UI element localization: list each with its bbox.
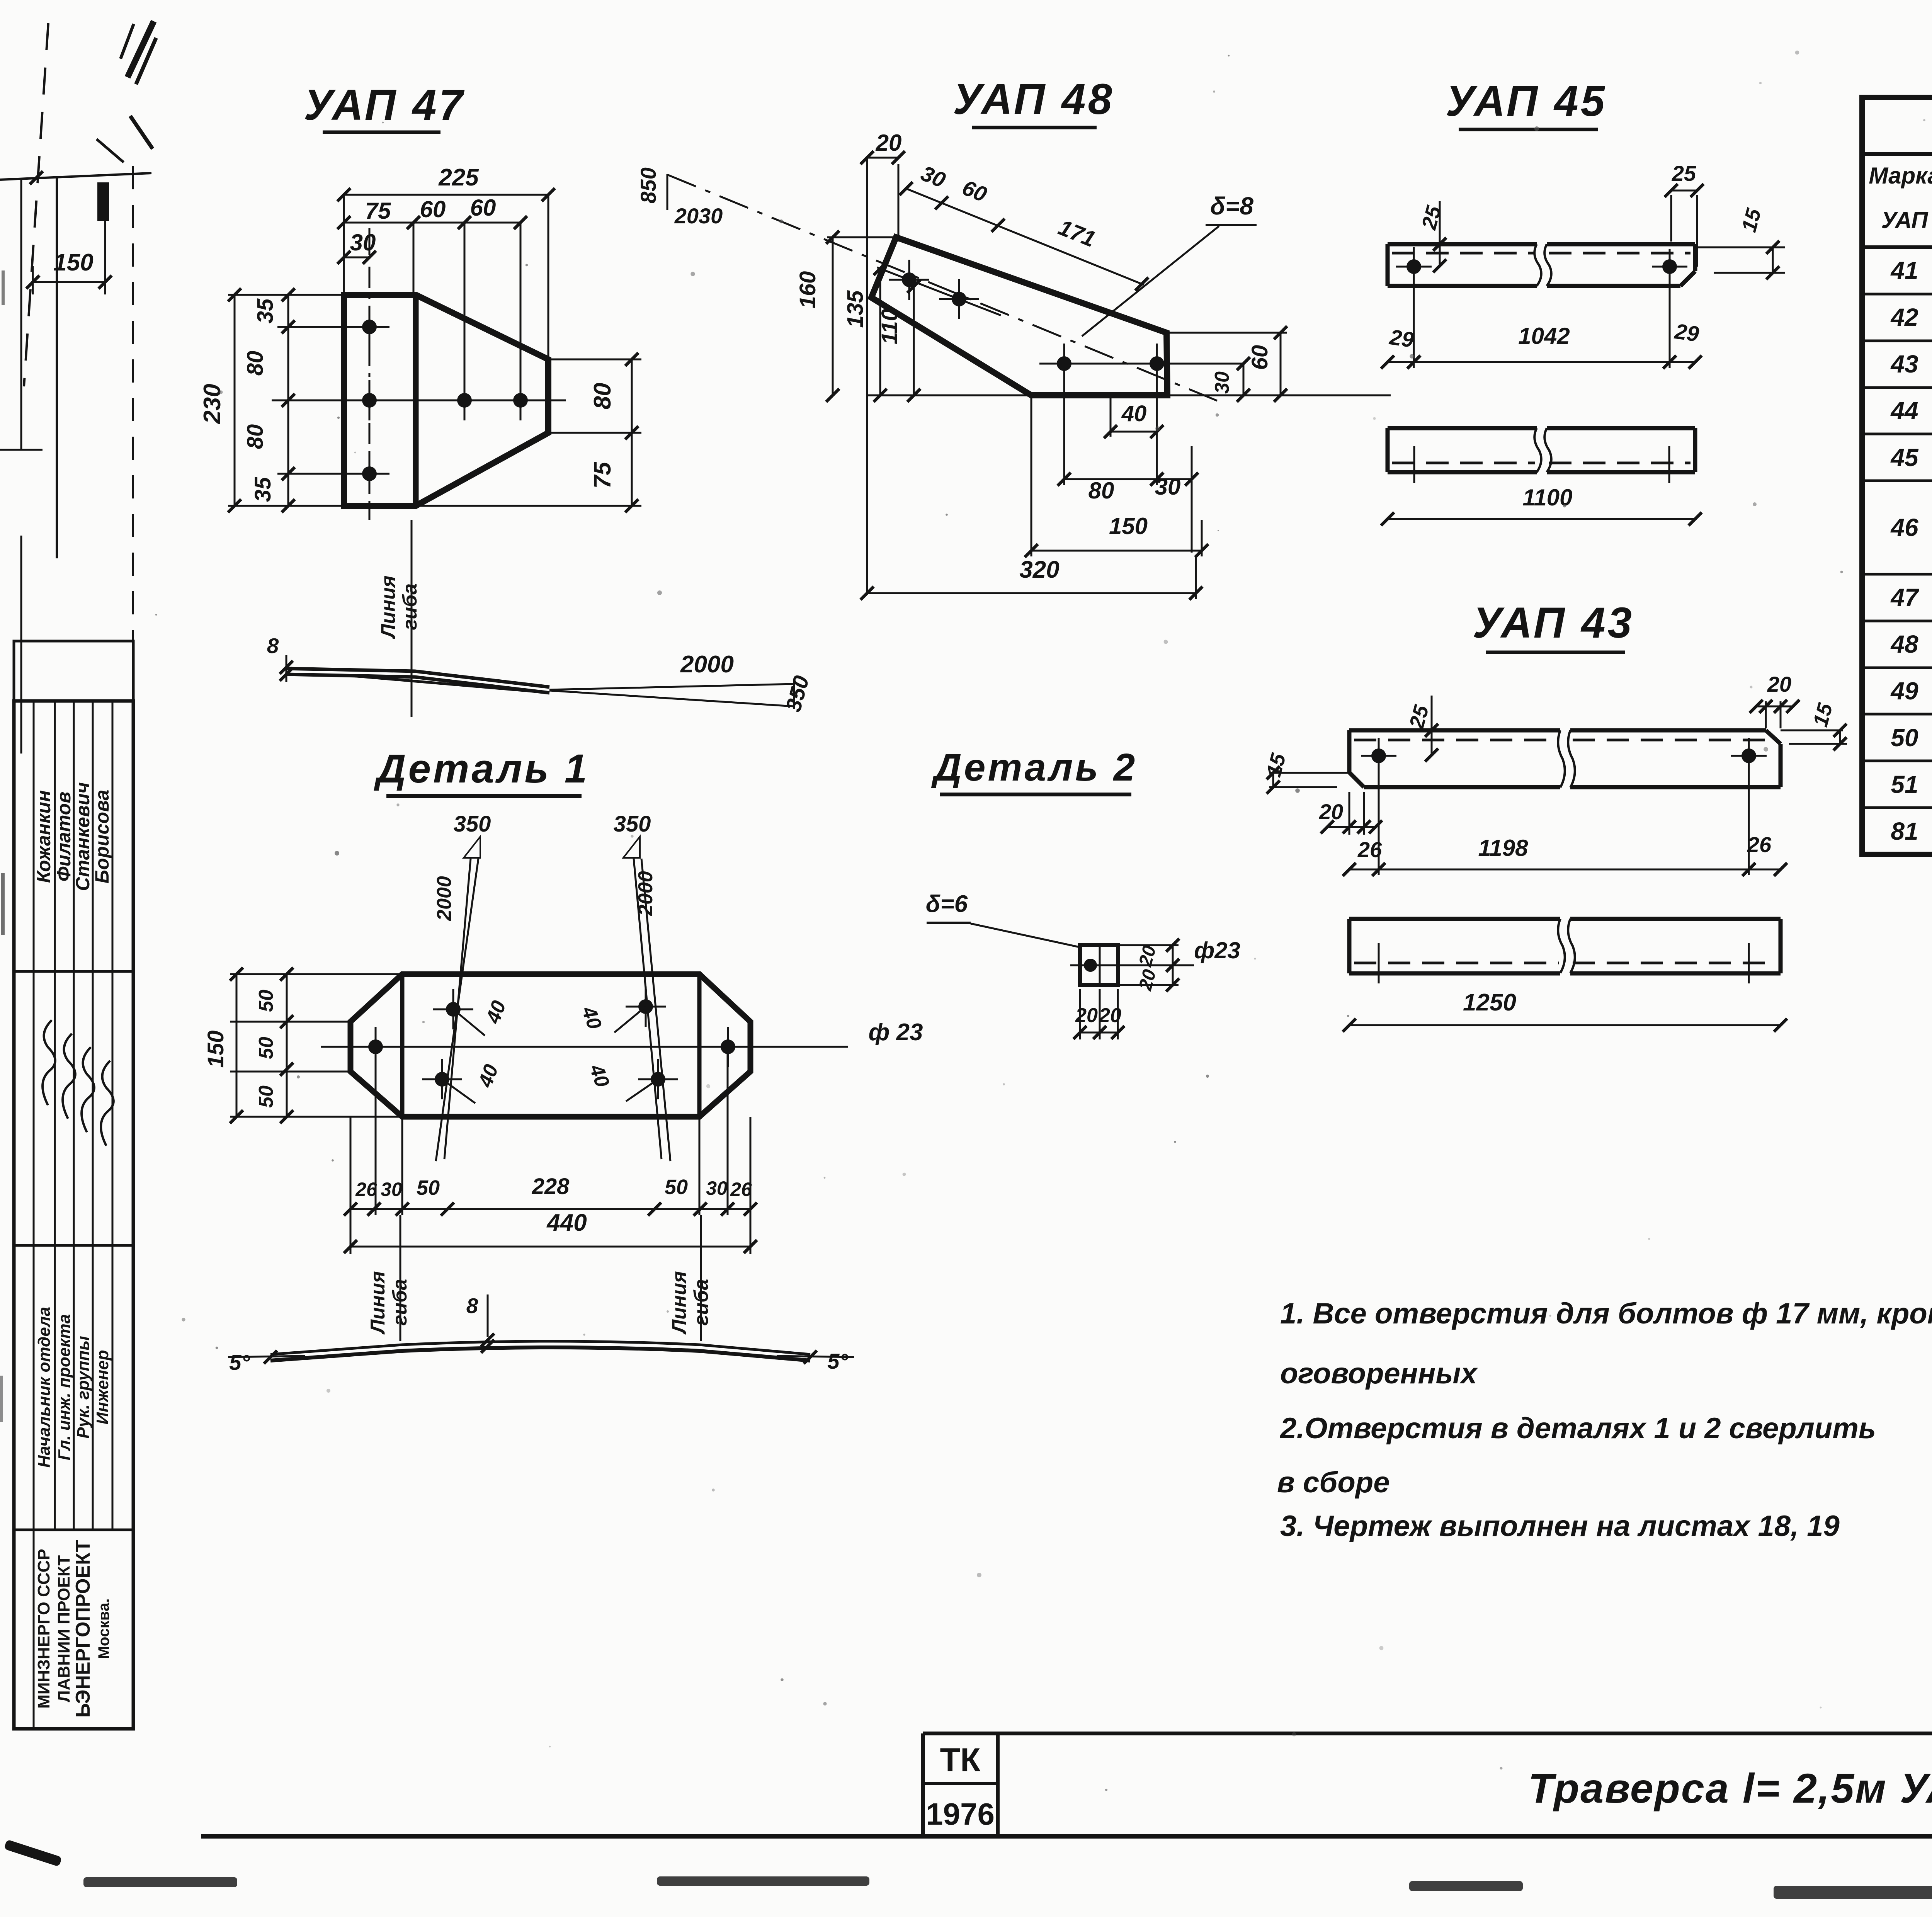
svg-text:41: 41 [1890, 257, 1918, 284]
svg-text:20: 20 [1319, 799, 1343, 824]
svg-text:850: 850 [636, 167, 660, 203]
svg-text:ТК: ТК [940, 1742, 981, 1779]
svg-text:50: 50 [1891, 724, 1918, 752]
svg-text:5°: 5° [229, 1350, 250, 1374]
svg-text:Линия: Линия [668, 1271, 690, 1335]
svg-text:1042: 1042 [1518, 323, 1570, 349]
svg-text:60: 60 [1247, 345, 1272, 370]
svg-text:2000: 2000 [680, 651, 734, 678]
svg-text:150: 150 [1109, 513, 1148, 539]
svg-text:δ=8: δ=8 [1210, 192, 1253, 220]
svg-text:УАП: УАП [1881, 207, 1929, 233]
svg-text:8: 8 [267, 634, 279, 658]
svg-text:228: 228 [532, 1174, 570, 1199]
svg-text:2000: 2000 [433, 876, 456, 921]
svg-text:350: 350 [454, 811, 491, 837]
svg-text:Филатов: Филатов [53, 791, 75, 881]
svg-text:80: 80 [243, 424, 268, 449]
svg-text:60: 60 [420, 196, 446, 222]
svg-text:1250: 1250 [1463, 989, 1516, 1016]
svg-text:26: 26 [730, 1179, 752, 1200]
svg-text:δ=6: δ=6 [926, 891, 968, 917]
svg-text:5°: 5° [827, 1349, 848, 1373]
svg-text:Станкевич: Станкевич [72, 782, 94, 891]
svg-text:ЛАВНИИ ПРОЕКТ: ЛАВНИИ ПРОЕКТ [54, 1555, 73, 1703]
svg-text:80: 80 [243, 351, 268, 376]
svg-text:50: 50 [255, 990, 277, 1012]
svg-text:35: 35 [250, 477, 276, 502]
svg-text:МИНЗНЕРГО СССР: МИНЗНЕРГО СССР [34, 1549, 53, 1709]
svg-text:35: 35 [253, 298, 278, 323]
svg-text:Деталь 1: Деталь 1 [374, 746, 590, 791]
svg-text:47: 47 [1890, 583, 1920, 611]
svg-text:Траверса l= 2,5м УАП VI: Траверса l= 2,5м УАП VI [1528, 1765, 1932, 1812]
svg-text:1. Все отверстия для болтов: 1. Все отверстия для болтов ф 17 мм, кро… [1280, 1297, 1932, 1330]
svg-text:2000: 2000 [634, 871, 657, 916]
svg-text:80: 80 [589, 383, 616, 410]
svg-text:ф23: ф23 [1194, 937, 1240, 963]
svg-text:43: 43 [1890, 350, 1918, 378]
svg-text:45: 45 [1890, 444, 1919, 471]
svg-text:320: 320 [1019, 556, 1059, 583]
svg-text:1976: 1976 [926, 1797, 995, 1831]
svg-text:ф 23: ф 23 [868, 1019, 923, 1046]
svg-text:гиба: гиба [389, 1279, 411, 1326]
svg-text:49: 49 [1890, 677, 1918, 705]
svg-text:75: 75 [365, 198, 391, 224]
svg-text:Рук. группы: Рук. группы [74, 1336, 93, 1439]
svg-text:Деталь 2: Деталь 2 [931, 746, 1138, 789]
svg-text:8: 8 [466, 1294, 478, 1318]
svg-text:гиба: гиба [399, 583, 421, 630]
svg-text:50: 50 [255, 1085, 277, 1108]
svg-text:2.Отверстия в деталях 1 и 2: 2.Отверстия в деталях 1 и 2 сверлить [1279, 1412, 1876, 1445]
svg-text:50: 50 [665, 1175, 688, 1199]
svg-text:УАП 47: УАП 47 [304, 81, 465, 129]
svg-text:3. Чертеж выполнен на листа: 3. Чертеж выполнен на листах 18, 19 [1280, 1510, 1840, 1543]
svg-text:Москва.: Москва. [95, 1599, 112, 1659]
svg-text:20: 20 [1767, 672, 1791, 696]
svg-text:160: 160 [795, 271, 820, 309]
svg-text:1198: 1198 [1478, 835, 1528, 861]
svg-text:25: 25 [1672, 161, 1696, 185]
svg-text:42: 42 [1890, 303, 1918, 331]
svg-text:75: 75 [589, 461, 616, 488]
svg-text:30: 30 [350, 230, 376, 255]
svg-text:110: 110 [877, 309, 902, 344]
svg-text:Линия: Линия [377, 575, 400, 639]
svg-text:135: 135 [843, 290, 868, 328]
svg-text:230: 230 [199, 384, 226, 424]
svg-text:Начальник отдела: Начальник отдела [35, 1307, 54, 1468]
svg-text:29: 29 [1673, 319, 1700, 346]
svg-text:2030: 2030 [674, 204, 723, 228]
svg-text:30: 30 [1211, 371, 1233, 394]
svg-text:29: 29 [1388, 325, 1415, 352]
svg-text:Марка: Марка [1869, 163, 1932, 189]
svg-text:оговоренных: оговоренных [1280, 1357, 1478, 1390]
svg-text:УАП 48: УАП 48 [953, 75, 1114, 123]
svg-text:в сборе: в сборе [1277, 1466, 1389, 1499]
svg-text:20: 20 [876, 130, 902, 156]
svg-text:150: 150 [53, 249, 93, 276]
svg-text:46: 46 [1890, 514, 1918, 541]
svg-text:УАП 45: УАП 45 [1446, 77, 1607, 125]
svg-text:440: 440 [546, 1209, 587, 1236]
svg-text:20: 20 [1075, 1004, 1098, 1027]
svg-text:30: 30 [381, 1179, 402, 1200]
svg-text:гиба: гиба [690, 1279, 713, 1326]
svg-text:350: 350 [614, 811, 651, 837]
svg-text:60: 60 [470, 195, 496, 221]
svg-text:26: 26 [355, 1179, 378, 1200]
svg-text:Кожанкин: Кожанкин [33, 790, 54, 883]
svg-text:40: 40 [1121, 401, 1147, 426]
svg-text:225: 225 [438, 164, 479, 191]
svg-text:Линия: Линия [367, 1271, 389, 1335]
svg-text:81: 81 [1891, 817, 1918, 845]
svg-text:26: 26 [1747, 832, 1772, 857]
svg-text:30: 30 [706, 1177, 728, 1199]
svg-text:Борисова: Борисова [91, 790, 113, 884]
svg-text:80: 80 [1088, 478, 1114, 503]
svg-text:50: 50 [417, 1176, 440, 1199]
svg-text:УАП 43: УАП 43 [1473, 599, 1634, 647]
svg-text:Инженер: Инженер [93, 1350, 112, 1424]
svg-text:150: 150 [203, 1031, 228, 1068]
svg-text:51: 51 [1891, 771, 1918, 798]
svg-text:ЬЭНЕРГОПРОЕКТ: ЬЭНЕРГОПРОЕКТ [72, 1540, 94, 1718]
svg-text:44: 44 [1890, 397, 1918, 425]
svg-text:48: 48 [1890, 630, 1918, 658]
svg-text:Гл. инж. проекта: Гл. инж. проекта [55, 1314, 74, 1460]
svg-text:50: 50 [255, 1037, 277, 1059]
